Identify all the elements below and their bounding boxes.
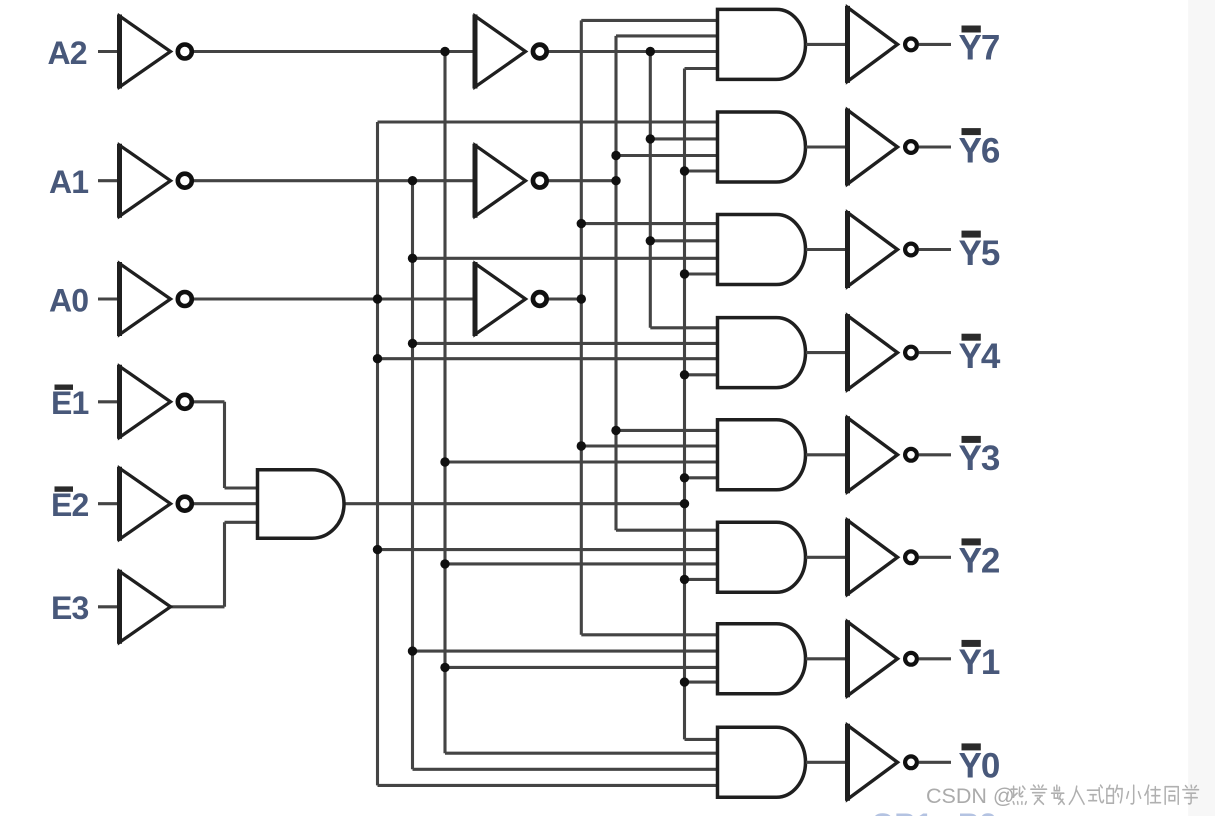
svg-text:E1: E1 <box>51 385 89 421</box>
svg-text:Y6: Y6 <box>959 131 1000 170</box>
svg-text:A1: A1 <box>49 164 88 200</box>
svg-text:A2: A2 <box>48 35 87 71</box>
svg-text:GB1: GB1 <box>871 808 933 816</box>
svg-text:CSDN @: CSDN @ <box>926 784 1015 808</box>
svg-text:Y7: Y7 <box>959 29 1000 68</box>
svg-text:E3: E3 <box>51 590 89 626</box>
svg-text:Y1: Y1 <box>959 643 1000 682</box>
svg-text:Y4: Y4 <box>959 337 1001 376</box>
svg-text:Y5: Y5 <box>959 234 1000 273</box>
svg-text:A0: A0 <box>49 282 88 318</box>
svg-text:Y2: Y2 <box>959 542 1000 581</box>
svg-text:Y3: Y3 <box>959 439 1000 478</box>
svg-text:E2: E2 <box>51 487 89 523</box>
svg-text:Y0: Y0 <box>959 747 1000 786</box>
svg-text:B2: B2 <box>958 808 996 816</box>
